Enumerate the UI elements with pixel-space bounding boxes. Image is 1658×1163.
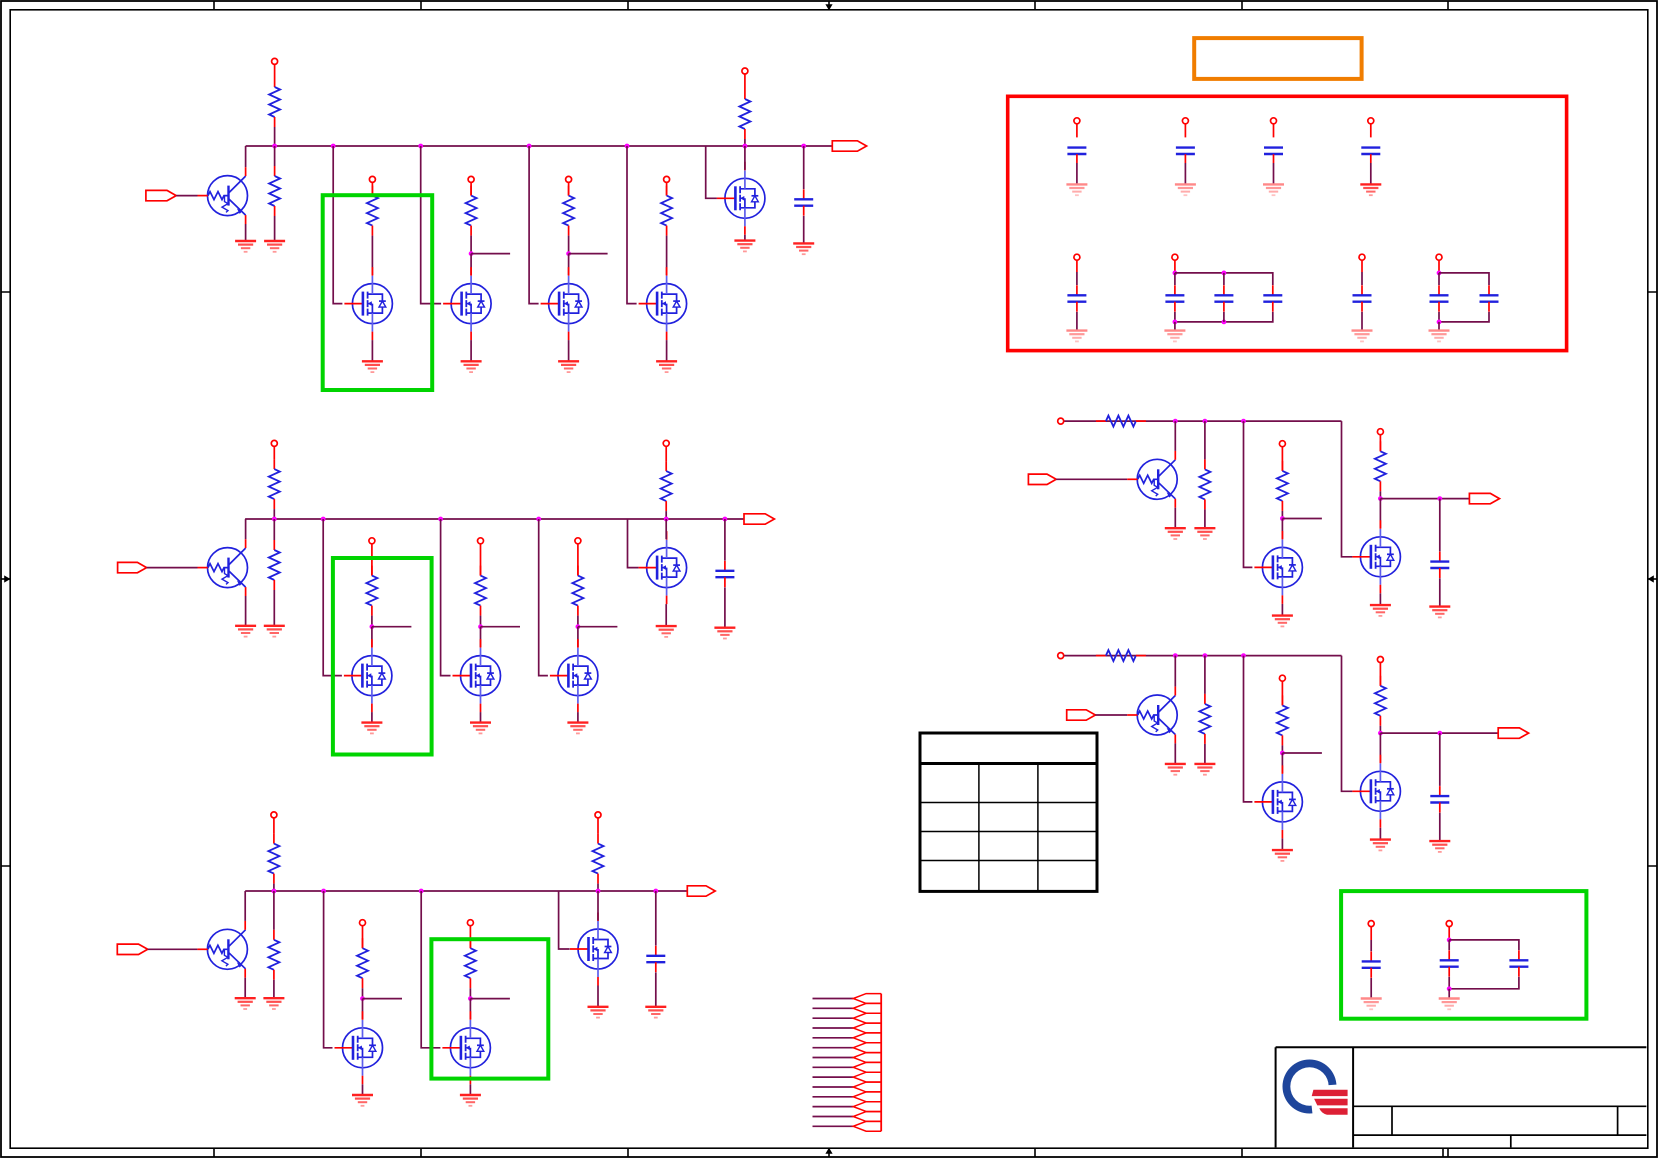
wire emitter (1174, 508, 1176, 529)
ground (235, 626, 256, 637)
capacitor C7 (1176, 148, 1195, 154)
wire gate M8 (539, 519, 548, 676)
junction (743, 144, 748, 149)
pin P9 (478, 538, 484, 544)
node BUS1 : top-left gate drive net (246, 145, 833, 147)
port connector pin 2 (853, 1003, 881, 1013)
wire (147, 567, 198, 569)
resistor R20 (1199, 459, 1210, 509)
capacitor C15 (1430, 285, 1449, 311)
ground (1194, 528, 1215, 539)
pin P7 (271, 440, 277, 446)
wire stub (363, 998, 403, 1000)
wire gate M5 (706, 146, 717, 198)
wire (362, 988, 364, 998)
wire (273, 590, 275, 626)
junction (478, 624, 483, 629)
pin P21 (1377, 657, 1383, 663)
pin P1 (272, 58, 278, 64)
wire (371, 616, 373, 627)
MOSFET M4 (639, 267, 687, 340)
wire connector pin 1 (813, 998, 854, 1000)
capacitor C17 (1362, 951, 1381, 977)
wire (1370, 940, 1372, 951)
ground (1361, 999, 1382, 1010)
wire output net (1380, 498, 1469, 500)
resistor R7 (739, 89, 750, 139)
junction (1447, 938, 1452, 943)
port connector pin 14 (853, 1121, 881, 1131)
wire (1273, 163, 1275, 184)
wire (1439, 813, 1441, 841)
ground (567, 723, 588, 734)
wire connector pin 12 (813, 1106, 854, 1108)
resistor R11 gate pull-down (475, 566, 486, 616)
wire (568, 254, 570, 276)
wire source (1281, 604, 1283, 616)
ground (263, 998, 284, 1009)
wire M drain (1379, 733, 1381, 763)
wire (1204, 656, 1206, 694)
MOSFET M14 (1254, 765, 1302, 838)
junction (468, 996, 473, 1001)
wire stub (578, 626, 618, 628)
Quanta logo (1283, 1060, 1348, 1117)
ground (1164, 331, 1185, 342)
ground (656, 626, 677, 637)
wire parallel bottom rail (1439, 312, 1489, 322)
pin P24 (1271, 118, 1277, 124)
wire parallel top rail (1439, 273, 1489, 285)
ground (470, 723, 491, 734)
resistor R21 gate pull-down (1277, 461, 1288, 511)
wire (1204, 509, 1206, 528)
highlight box (green) (323, 195, 433, 390)
wire M source (1379, 828, 1381, 840)
capacitor C8 (1264, 148, 1283, 154)
wire connector pin 6 (813, 1047, 854, 1049)
capacitor C18 (1440, 950, 1459, 976)
junction (1222, 271, 1227, 276)
wire M8 source (577, 712, 579, 723)
wire (274, 146, 276, 166)
wire (1361, 272, 1363, 285)
ground (1439, 999, 1460, 1010)
wire (1076, 163, 1078, 184)
junction (321, 517, 326, 522)
ground (1175, 184, 1196, 195)
junction (653, 889, 658, 894)
wire stub (569, 253, 608, 255)
frame zone ticks top (214, 1, 1448, 10)
wire (1223, 273, 1225, 285)
MOSFET M9 (639, 531, 687, 604)
node R1BUS (1064, 420, 1342, 422)
ground (656, 361, 677, 372)
capacitor C1 (794, 189, 813, 215)
wire (1076, 312, 1078, 331)
port connector pin 6 (853, 1043, 881, 1053)
capacitor C2 (715, 561, 734, 587)
resistor R6 gate pull-down (661, 186, 672, 236)
wire parallel top rail (1449, 940, 1519, 950)
junction (418, 144, 423, 149)
pin P8 (369, 538, 375, 544)
resistor R25 gate pull-down (1277, 695, 1288, 745)
capacitor C11 (1165, 285, 1184, 311)
junction (801, 144, 806, 149)
pin P18 (1377, 429, 1383, 435)
wire (1076, 124, 1078, 138)
node R2BUS (1064, 655, 1342, 657)
wire to C2 (724, 519, 726, 561)
ground (1272, 850, 1293, 861)
resistor R22 (1375, 441, 1386, 491)
resistor R16 gate pull-down (357, 938, 368, 988)
wire M4 source (666, 340, 668, 361)
MOSFET M11 (442, 1011, 490, 1084)
wire M source (1379, 593, 1381, 605)
port IN3 (117, 944, 147, 954)
frame zone ticks right (1648, 292, 1657, 866)
pin P28 (1359, 254, 1365, 260)
wire (1439, 578, 1441, 606)
highlight box (green) (333, 558, 432, 755)
wire gate M3 (529, 146, 539, 304)
ground (1066, 331, 1087, 342)
wire gate (1244, 421, 1253, 567)
port IN1 (146, 190, 176, 200)
pin P20 (1279, 675, 1285, 681)
junction (1280, 751, 1285, 756)
junction (1378, 731, 1383, 736)
transistor Q4 (1127, 459, 1177, 499)
ground (1370, 840, 1391, 851)
pin P14 (467, 920, 473, 926)
wire gate M7 (441, 519, 451, 676)
port INR1 (1028, 474, 1056, 484)
pin P15 (595, 812, 601, 818)
wire (1448, 989, 1450, 999)
ground (1165, 764, 1186, 775)
resistor R4 gate pull-down (466, 186, 477, 236)
port INR2 (1067, 710, 1096, 720)
ground (1194, 764, 1215, 775)
ground (352, 1095, 373, 1106)
wire M5 source (744, 235, 746, 241)
wire (1174, 322, 1176, 331)
junction (625, 144, 630, 149)
wire (655, 972, 657, 1006)
wire (1281, 753, 1283, 773)
wire stub (372, 626, 412, 628)
ground (361, 723, 382, 734)
wire (176, 195, 197, 197)
wire (568, 236, 570, 254)
resistor R26 (1375, 676, 1386, 726)
ground (461, 361, 482, 372)
junction (1173, 271, 1178, 276)
junction (360, 996, 365, 1001)
junction (1437, 731, 1442, 736)
wire (1438, 273, 1440, 285)
wire gate (1244, 656, 1253, 802)
wire (744, 139, 746, 146)
ground (645, 1007, 666, 1018)
wire (1184, 163, 1186, 184)
pin P23 (1182, 118, 1188, 124)
pin P2 (369, 176, 375, 182)
wire (470, 254, 472, 276)
wire connector pin 2 (813, 1007, 854, 1009)
junction (272, 144, 277, 149)
resistor R12 gate pull-down (572, 566, 583, 616)
wire (148, 948, 198, 950)
wire (1174, 273, 1176, 285)
frame center arrow left (1, 575, 10, 582)
wire (1370, 163, 1372, 184)
capacitor C12 (1214, 285, 1233, 311)
ground (714, 628, 735, 639)
wire stub (471, 253, 510, 255)
wire gate M12 (559, 891, 570, 949)
wire M5 drain (744, 146, 746, 170)
MOSFET M7 (453, 639, 501, 712)
junction (469, 251, 474, 256)
junction (596, 889, 601, 894)
capacitor C14 (1353, 285, 1372, 311)
resistor R2 (269, 166, 280, 216)
wire stub (470, 998, 510, 1000)
wire gate (1342, 421, 1353, 557)
wire Q1 emitter (245, 224, 247, 241)
wire (724, 587, 726, 627)
port connector pin 9 (853, 1072, 881, 1082)
resistor R23 series (1096, 650, 1146, 661)
wire Q2 emitter (245, 596, 247, 626)
resistor R3 gate pull-down (367, 186, 378, 236)
wire gate M1 (333, 146, 342, 304)
resistor R15 (268, 930, 279, 980)
wire M11 source (469, 1084, 471, 1095)
ground (235, 998, 256, 1009)
wire M drain (1379, 499, 1381, 529)
wire emitter (1174, 743, 1176, 764)
junction (1222, 320, 1227, 325)
capacitor C4 (1430, 552, 1449, 578)
highlight box (orange) (1194, 38, 1361, 79)
wire Q2 collector (245, 519, 247, 539)
junction (1203, 653, 1208, 658)
transistor Q2 (198, 548, 248, 588)
pin P31 (1446, 921, 1452, 927)
wire (469, 988, 471, 998)
wire connector pin 3 (813, 1017, 854, 1019)
wire connector pin 10 (813, 1086, 854, 1088)
transistor Q3 (197, 929, 247, 969)
wire (273, 980, 275, 998)
frame center arrow right (1648, 575, 1657, 582)
wire (577, 627, 579, 647)
wire (1223, 312, 1225, 322)
wire M12 source (597, 986, 599, 1007)
ground (1429, 841, 1450, 852)
wire connector pin 4 (813, 1027, 854, 1029)
wire to cap (1439, 733, 1441, 786)
wire parallel bottom rail (1175, 312, 1273, 322)
ground (1272, 616, 1293, 627)
wire connector pin 14 (813, 1125, 854, 1127)
junction (331, 144, 336, 149)
port connector pin 10 (853, 1082, 881, 1092)
wire (1438, 322, 1440, 331)
wire M10 source (362, 1084, 364, 1095)
pin P4 (566, 176, 572, 182)
wire stub (481, 626, 521, 628)
resistor R1 pull-up (269, 77, 280, 127)
wire source (1281, 838, 1283, 850)
pin P12 (271, 812, 277, 818)
wire Q3 emitter (244, 978, 246, 999)
resistor R10 gate pull-down (366, 566, 377, 616)
junction (272, 517, 277, 522)
ground (235, 241, 256, 252)
MOSFET M3 (541, 267, 589, 340)
highlight box (green) (1341, 891, 1586, 1019)
ground (793, 243, 814, 254)
junction (536, 517, 541, 522)
MOSFET M8 (550, 639, 598, 712)
pin P29 (1436, 254, 1442, 260)
junction (1378, 496, 1383, 501)
wire (1273, 124, 1275, 138)
pin P5 (664, 176, 670, 182)
wire connector pin 9 (813, 1076, 854, 1078)
port connector pin 4 (853, 1023, 881, 1033)
node BUS3 : bottom-left gate drive net (245, 890, 687, 892)
port connector pin 5 (853, 1033, 881, 1043)
capacitor C5 (1430, 786, 1449, 812)
junction (1241, 653, 1246, 658)
pin P22 (1074, 118, 1080, 124)
junction (321, 889, 326, 894)
wire to C1 (803, 146, 805, 189)
highlight box (red) (1008, 96, 1567, 350)
junction (1447, 986, 1452, 991)
bottom margin divider (1442, 1148, 1444, 1157)
MOSFET M1 (344, 267, 392, 340)
junction (1437, 496, 1442, 501)
wire (803, 216, 805, 244)
wire (1281, 745, 1283, 753)
port connector pin 7 (853, 1053, 881, 1063)
frame center arrow top (825, 1, 832, 10)
capacitor C10 (1067, 285, 1086, 311)
pin P3 (468, 176, 474, 182)
junction (1241, 419, 1246, 424)
junction (1437, 320, 1442, 325)
wire stub (1282, 752, 1322, 754)
capacitor C9 (1361, 148, 1380, 154)
capacitor C16 (1480, 285, 1499, 311)
wire to cap (1439, 499, 1441, 552)
junction (576, 624, 581, 629)
wire connector pin 13 (813, 1116, 854, 1118)
ground (734, 241, 755, 252)
port connector pin 3 (853, 1013, 881, 1023)
wire (371, 627, 373, 647)
wire (1184, 124, 1186, 138)
wire M6 source (371, 712, 373, 723)
port IN2 (118, 562, 147, 572)
resistor R8 pull-up (269, 459, 280, 509)
wire (665, 511, 667, 519)
port OUTR1 (1469, 493, 1499, 503)
junction (723, 517, 728, 522)
junction (1173, 419, 1178, 424)
wire (1095, 714, 1127, 716)
capacitor C3 (646, 946, 665, 972)
wire (273, 519, 275, 540)
wire (371, 236, 373, 276)
wire gate M11 (421, 891, 440, 1048)
wire (1204, 744, 1206, 764)
wire M3 source (568, 340, 570, 361)
node BUS2 : middle-left gate drive net (245, 518, 744, 520)
ground (588, 1007, 609, 1018)
junction (370, 624, 375, 629)
resistor R24 (1199, 694, 1210, 744)
ground (264, 241, 285, 252)
wire (1361, 312, 1363, 331)
port connector pin 13 (853, 1112, 881, 1122)
pin P25 (1368, 118, 1374, 124)
port connector pin 11 (853, 1092, 881, 1102)
port OUT1 (832, 141, 866, 151)
wire M9 drain (665, 519, 667, 539)
wire M1 source (371, 340, 373, 361)
wire gate M2 (421, 146, 441, 304)
wire (273, 509, 275, 519)
wire gate M10 (324, 891, 333, 1048)
wire (469, 999, 471, 1020)
junction (1173, 320, 1178, 325)
MOSFET M5 (717, 162, 765, 235)
pin P10 (575, 538, 581, 544)
wire (666, 236, 668, 276)
ground (1370, 605, 1391, 616)
wire (1379, 491, 1381, 498)
ground (362, 361, 383, 372)
junction (1437, 271, 1442, 276)
junction (438, 517, 443, 522)
wire (1370, 978, 1372, 999)
pin P26 (1074, 254, 1080, 260)
MOSFET M10 (335, 1011, 383, 1084)
revision table (920, 733, 1097, 891)
transistor Q5 (1127, 695, 1177, 735)
MOSFET M15 (1352, 520, 1400, 593)
transistor Q1 (198, 176, 248, 216)
wire (1204, 421, 1206, 459)
resistor R13 (661, 461, 672, 511)
wire Q3 collector (244, 891, 246, 921)
junction (1280, 516, 1285, 521)
wire gate M4 (627, 146, 637, 304)
port connector pin 12 (853, 1102, 881, 1112)
port connector pin 1 (853, 994, 881, 1004)
wire connector pin 5 (813, 1037, 854, 1039)
